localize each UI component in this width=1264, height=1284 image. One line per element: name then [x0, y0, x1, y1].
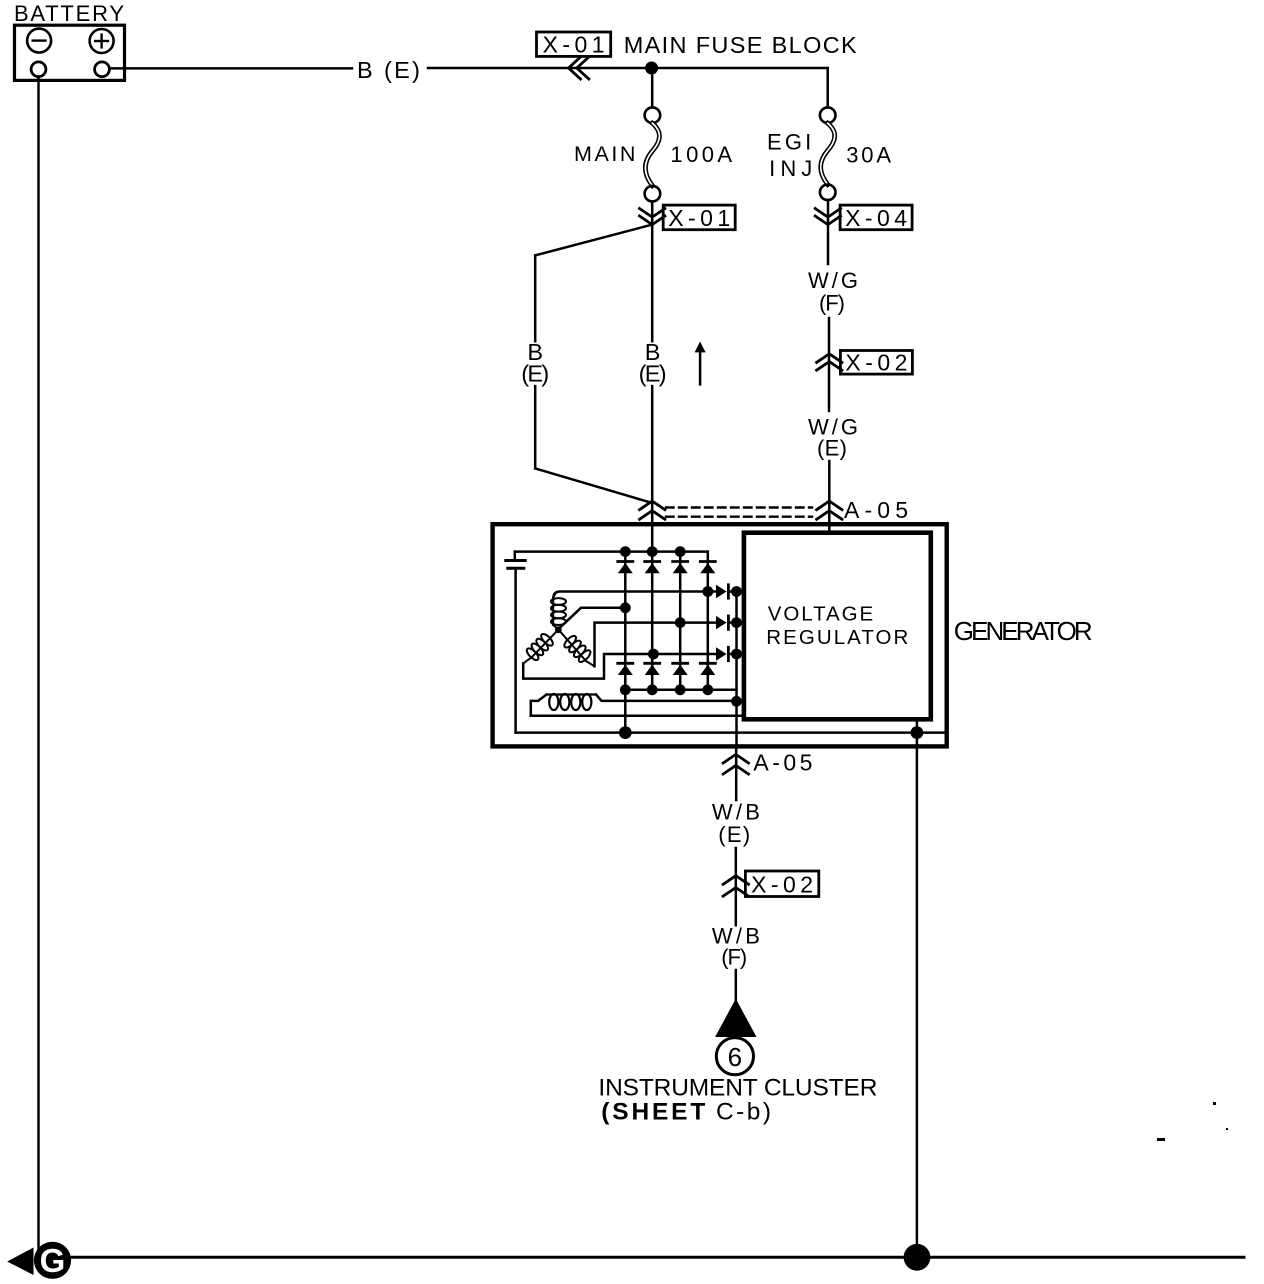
wire EGI fuse to W/G(F) gap [827, 200, 830, 264]
svg-text:30A: 30A [846, 143, 891, 168]
svg-text:100A: 100A [670, 142, 732, 167]
ground symbol G [7, 1242, 71, 1279]
stator coil top branch [551, 598, 566, 629]
wire generator case to ground rail [916, 733, 919, 1258]
connector label box X-01 lower [663, 205, 735, 230]
connector X-02 chevrons right wire [817, 354, 842, 363]
generator ground wire [516, 731, 944, 734]
svg-text:X-02: X-02 [751, 872, 813, 898]
svg-text:(E): (E) [718, 822, 750, 847]
stator phase wire row1 [553, 592, 716, 600]
diode D4 top col4 [700, 562, 715, 574]
wire branch diagonal rejoining center [535, 468, 652, 503]
rectifier column 3 wire [679, 552, 682, 690]
field coil left lead to VR [531, 695, 743, 716]
trio diode row4 [716, 647, 737, 660]
diode D2 top col2 [645, 562, 660, 574]
battery plus post circle [95, 62, 110, 77]
wire top B+ bus [515, 550, 708, 553]
circuit number circle 6 [716, 1038, 753, 1075]
node dots on top bus [620, 546, 631, 557]
svg-text:(E): (E) [817, 436, 847, 461]
node dot col1 at ground wire [619, 726, 632, 739]
off-page arrow to instrument cluster [715, 999, 756, 1037]
diode D6 bottom col2 [645, 663, 660, 675]
field coil L [547, 694, 596, 710]
wire bottom bus [625, 689, 736, 692]
svg-text:(F): (F) [721, 945, 747, 970]
junction node dot at fuse block [645, 62, 658, 75]
battery minus post circle [31, 62, 46, 77]
svg-text:VOLTAGE: VOLTAGE [768, 603, 873, 626]
connector A-05 chevrons center [640, 501, 665, 510]
diode D3 top col3 [673, 562, 688, 574]
scan speck 1 [1157, 1138, 1165, 1141]
svg-text:A-05: A-05 [753, 749, 812, 775]
node dot VR ground junction [911, 726, 924, 739]
fuse MAIN 100A bottom circle [645, 186, 661, 202]
svg-text:W/G: W/G [808, 268, 858, 293]
trio output wire vertical [735, 592, 738, 747]
wire center below B(E) to generator [651, 386, 654, 551]
svg-text:MAIN: MAIN [574, 142, 635, 166]
diode D5 bottom col1 [618, 663, 633, 675]
wire B(E) label to fuse block junction [428, 67, 652, 70]
wire branch diagonal to left B(E) wire [535, 225, 652, 256]
field coil right lead to trio line [596, 695, 737, 701]
wire W/B(E) to X-02 [735, 848, 738, 925]
wire junction down to MAIN fuse [651, 68, 654, 107]
capacitor C top plate [506, 559, 525, 562]
svg-text:(F): (F) [819, 291, 845, 316]
diode D1 top col1 [618, 562, 633, 574]
generator outer box [493, 524, 947, 746]
wire generator output to W/B gap [735, 746, 738, 800]
battery plus terminal [90, 29, 114, 53]
svg-text:X-01: X-01 [668, 205, 730, 231]
connector label box X-04 [840, 205, 912, 230]
stator neutral wire row2 [561, 608, 626, 627]
connector label box X-02 bottom [745, 871, 818, 897]
node dots on bottom bus [620, 684, 631, 695]
connector label box X-02 right [840, 351, 912, 375]
rectifier column 2 wire [651, 552, 654, 690]
connector X-01 chevrons below MAIN fuse [640, 209, 665, 218]
stator coil right branch [561, 633, 595, 667]
svg-text:EGI: EGI [767, 130, 811, 155]
svg-text:REGULATOR: REGULATOR [766, 626, 908, 649]
stator coil left branch [523, 632, 556, 664]
voltage regulator box [744, 533, 931, 720]
trio diode row1 [716, 585, 737, 598]
fuse EGI INJ 30A top circle [820, 107, 836, 123]
svg-text:(E): (E) [521, 360, 549, 386]
fuse EGI INJ 30A element [821, 123, 835, 184]
trio diode row3 [716, 616, 737, 629]
wire left branch lower segment [534, 386, 537, 468]
ground rail wire [70, 1256, 1244, 1259]
connector label box X-01 top [537, 32, 611, 56]
fuse EGI INJ 30A bottom circle [820, 185, 836, 201]
connector X-04 chevrons below EGI fuse [815, 209, 840, 218]
direction arrow up [699, 351, 702, 385]
wire junction to EGI branch [652, 67, 828, 70]
fuse MAIN 100A element [645, 123, 659, 186]
rectifier column 4 wire [707, 552, 710, 690]
wire W/G(E) to generator [828, 461, 831, 533]
connector separation dashed lines [666, 506, 812, 508]
svg-text:(SHEET: (SHEET [601, 1099, 705, 1126]
diode D8 bottom col4 [700, 663, 715, 675]
rectifier column 1 wire [624, 552, 627, 733]
svg-text:X-04: X-04 [845, 205, 907, 231]
wire W/G(F) to X-02 [828, 318, 831, 411]
svg-text:6: 6 [728, 1042, 742, 1072]
connector A-05 chevrons below generator [723, 754, 748, 763]
node dot field wire junction [731, 696, 742, 707]
stator phase wire row4 [523, 654, 716, 679]
node dot ground rail junction [904, 1244, 931, 1271]
svg-text:X-02: X-02 [845, 350, 907, 376]
wire capacitor down to ground wire [514, 568, 517, 732]
diode D7 bottom col3 [673, 663, 688, 675]
svg-text:G: G [40, 1242, 66, 1279]
scan speck 2 [1213, 1102, 1216, 1105]
wire left branch upper segment [534, 255, 537, 341]
wire battery minus down to ground [37, 77, 40, 1248]
wire battery plus to B(E) label [110, 67, 352, 70]
scan speck 3 [1226, 1128, 1228, 1130]
fuse MAIN 100A top circle [645, 107, 661, 123]
battery minus terminal [27, 29, 51, 53]
wire VR bottom to ground wire [916, 720, 919, 733]
svg-text:C-b): C-b) [716, 1099, 771, 1126]
svg-text:W/B: W/B [712, 800, 760, 825]
stator star point [555, 626, 562, 633]
wire down to EGI fuse [826, 68, 829, 107]
wire top bus left end down to capacitor [514, 552, 517, 561]
connector X-01 chevrons on horizontal wire [569, 57, 581, 79]
svg-text:(E): (E) [639, 360, 667, 386]
stator phase wire row3 [595, 623, 717, 667]
svg-text:MAIN FUSE BLOCK: MAIN FUSE BLOCK [624, 32, 857, 58]
svg-text:GENERATOR: GENERATOR [954, 616, 1093, 646]
connector X-02 chevrons bottom [723, 876, 748, 885]
wire MAIN fuse down to B(E) gap [651, 202, 654, 342]
connector A-05 chevrons right [817, 501, 842, 510]
wire W/B(F) to arrow [735, 970, 738, 1000]
svg-text:X-01: X-01 [543, 32, 605, 58]
battery box [15, 25, 125, 80]
capacitor C bottom plate [508, 567, 524, 570]
